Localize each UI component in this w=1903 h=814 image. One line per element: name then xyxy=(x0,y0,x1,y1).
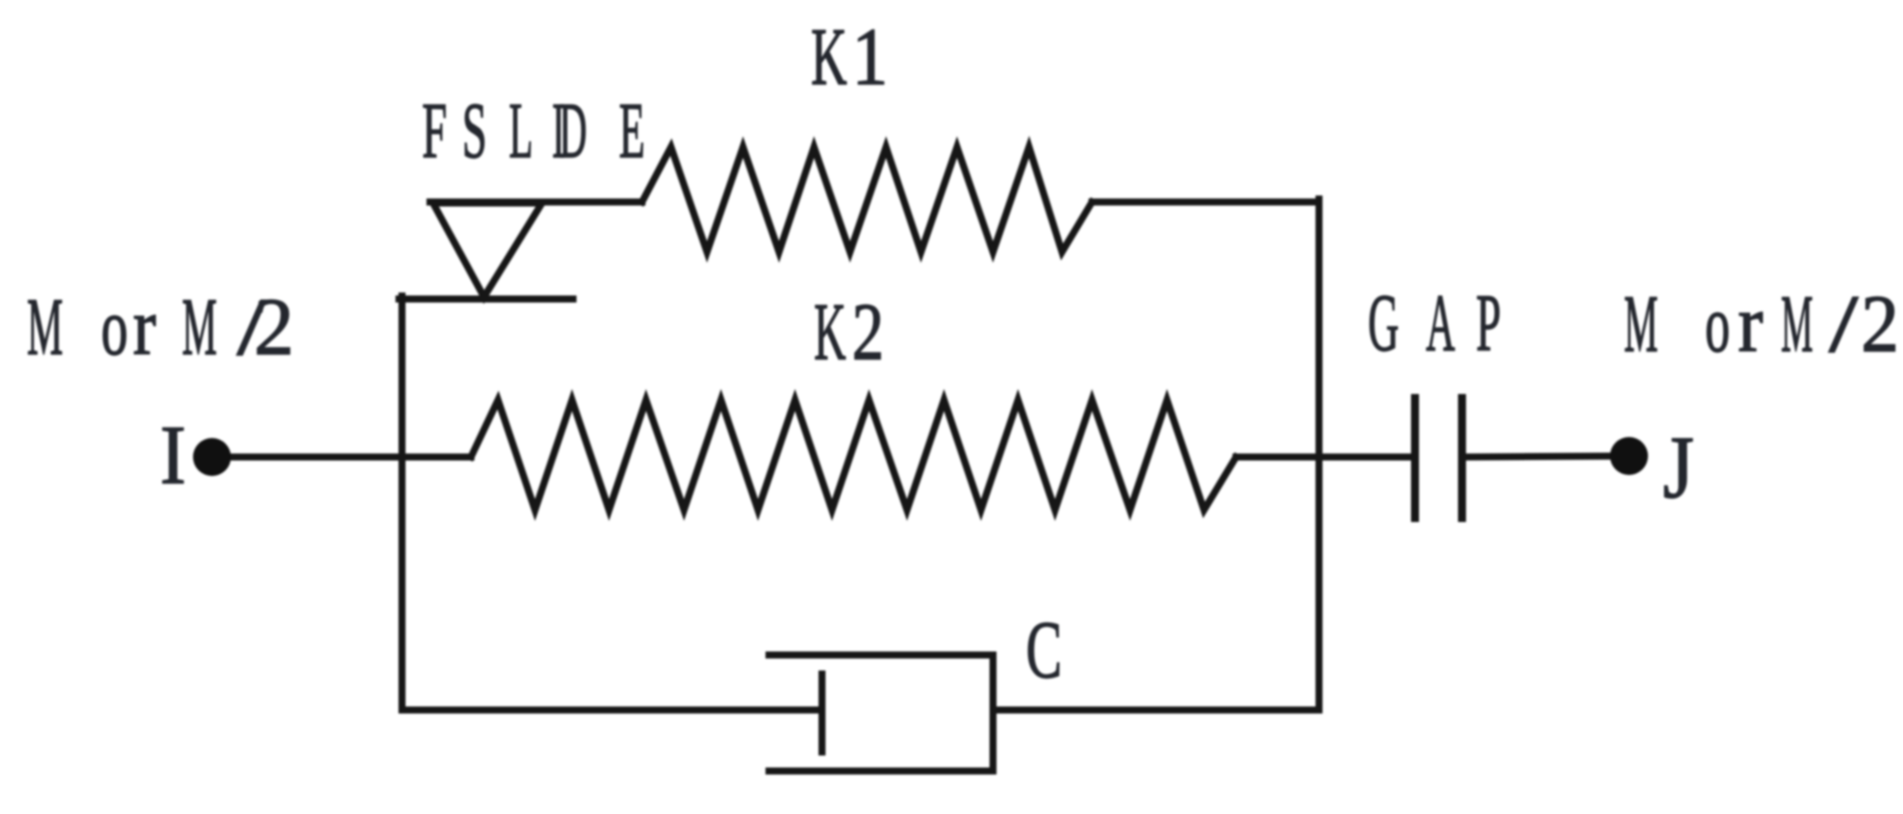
friction slider FSLIDE triangle xyxy=(433,203,542,297)
svg-text:D: D xyxy=(559,88,587,175)
wire: top branch right segment xyxy=(1092,199,1319,206)
capacitor GAP right plate xyxy=(1458,398,1466,518)
damper C cylinder bottom wall xyxy=(769,768,993,775)
svg-text:M: M xyxy=(1624,278,1658,369)
svg-text:F: F xyxy=(422,88,447,175)
svg-text:I: I xyxy=(160,409,186,502)
node I terminal dot xyxy=(193,438,231,476)
wire: K2 to GAP xyxy=(1236,454,1411,461)
svg-text:o: o xyxy=(101,281,128,372)
svg-text:2: 2 xyxy=(1861,278,1899,369)
wire: bottom branch left segment xyxy=(402,707,822,714)
damper C cylinder top wall xyxy=(769,652,993,659)
svg-text:C: C xyxy=(1026,604,1062,695)
svg-text:o: o xyxy=(1705,278,1730,369)
node I wire xyxy=(212,454,471,461)
svg-text:G: G xyxy=(1368,277,1399,368)
svg-text:M: M xyxy=(27,281,63,372)
svg-text:K: K xyxy=(814,286,846,377)
svg-text:P: P xyxy=(1476,277,1501,368)
resistor K2 (spring zigzag) xyxy=(471,400,1236,510)
svg-text:E: E xyxy=(619,88,645,175)
wire: slider base line xyxy=(399,296,573,303)
svg-text:S: S xyxy=(462,88,487,175)
svg-text:M: M xyxy=(182,281,217,372)
svg-text:/: / xyxy=(1829,278,1858,369)
svg-text:r: r xyxy=(1738,278,1763,369)
wire: bottom branch right segment xyxy=(993,707,1319,714)
wire: left vertical bus xyxy=(399,296,406,710)
svg-text:M: M xyxy=(1781,278,1813,369)
svg-text:r: r xyxy=(133,281,156,372)
wire: GAP to node J xyxy=(1466,456,1629,457)
svg-text:K: K xyxy=(811,11,847,102)
svg-text:2: 2 xyxy=(254,281,294,372)
svg-text:2: 2 xyxy=(852,286,884,377)
svg-text:1: 1 xyxy=(852,11,888,102)
svg-text:J: J xyxy=(1663,419,1694,517)
svg-text:A: A xyxy=(1426,277,1455,368)
resistor K1 (spring zigzag) xyxy=(642,147,1092,252)
damper C piston xyxy=(819,674,826,752)
svg-text:L: L xyxy=(509,88,533,175)
node J terminal dot xyxy=(1610,437,1648,475)
wire: right vertical bus xyxy=(1316,199,1323,710)
damper C cylinder right wall xyxy=(990,655,997,771)
wire: top branch left segment xyxy=(430,199,642,206)
capacitor GAP left plate xyxy=(1411,398,1419,518)
